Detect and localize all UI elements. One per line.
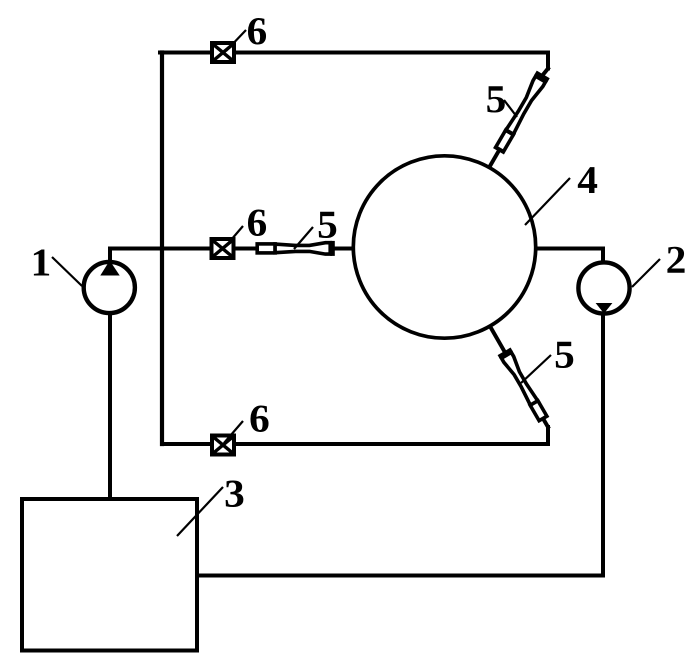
wire: pump 1 outlet down to tank [108,313,112,501]
wire: middle horizontal from pump 1 to valve 6 [110,247,212,251]
wire: bottom-right corner stub [546,427,550,444]
label 4 [578,167,597,193]
label 6 bottom [250,406,268,432]
wire: middle horizontal from vessel 4 to pump 2 [536,247,603,251]
wire: bottom horizontal line left of valve 6 [162,442,212,446]
leader line for label 5 middle [294,227,313,249]
venturi 5 (top-right diagonal) [493,71,550,154]
label 2 [667,247,684,273]
leader line for label 4 [525,178,570,225]
wire: top horizontal line right of valve 6 [234,51,548,55]
pump 1 circle [84,262,135,313]
label 3 [226,481,244,507]
pump 1 flow triangle (up) [100,261,119,276]
venturi 5 (bottom-right diagonal) [498,348,550,423]
wire: pump 2 inlet stub [601,249,605,264]
valve 6 (bottom) [212,436,234,455]
label 1 [34,249,49,275]
label 5 bottom [556,342,574,368]
wire: bottom return line tank to pump 2 [199,574,603,578]
valve 6 (top) [212,43,234,62]
wire: top horizontal line left of valve 6 [160,51,212,55]
venturi 5 (middle horizontal) [257,241,335,256]
wire: left vertical line [160,53,164,445]
wire: top-right diagonal upper segment to venturi cap [544,69,548,74]
tank 3 rectangle [22,499,197,651]
wire: pump 2 outlet down [601,314,605,576]
leader line for label 2 [632,259,660,287]
wire: top-right corner stub down from top line [546,53,550,69]
vessel 4 (large circle) [353,156,535,338]
pump 2 circle [578,262,629,313]
wire: middle horizontal from valve 6 to venturi 5 [234,247,258,251]
leader line for label 3 [177,487,223,536]
label 5 top [487,86,505,112]
pump 2 flow triangle (down) [596,303,613,314]
label 6 middle [248,210,266,236]
valve 6 (middle) [212,239,234,258]
leader line for label 6 middle [225,226,243,247]
wire: bottom horizontal line right of valve 6 [234,442,548,446]
leader line for label 5 bottom [521,355,551,383]
wire: top-right diagonal lower segment venturi to vessel [490,151,499,166]
wire: middle horizontal from venturi 5 to vessel 4 [334,247,353,251]
wire: bottom-right diagonal segment vessel to venturi cap [491,328,504,351]
leader line for label 5 top [504,100,517,117]
label 5 middle [319,212,337,238]
wire: pump 1 inlet stub [108,249,112,263]
label 6 top [248,18,266,44]
leader line for label 6 bottom [224,421,243,443]
wire: bottom-right diagonal segment venturi to corner [544,420,548,427]
leader line for label 6 top [226,30,246,51]
leader line for label 1 [52,257,82,286]
